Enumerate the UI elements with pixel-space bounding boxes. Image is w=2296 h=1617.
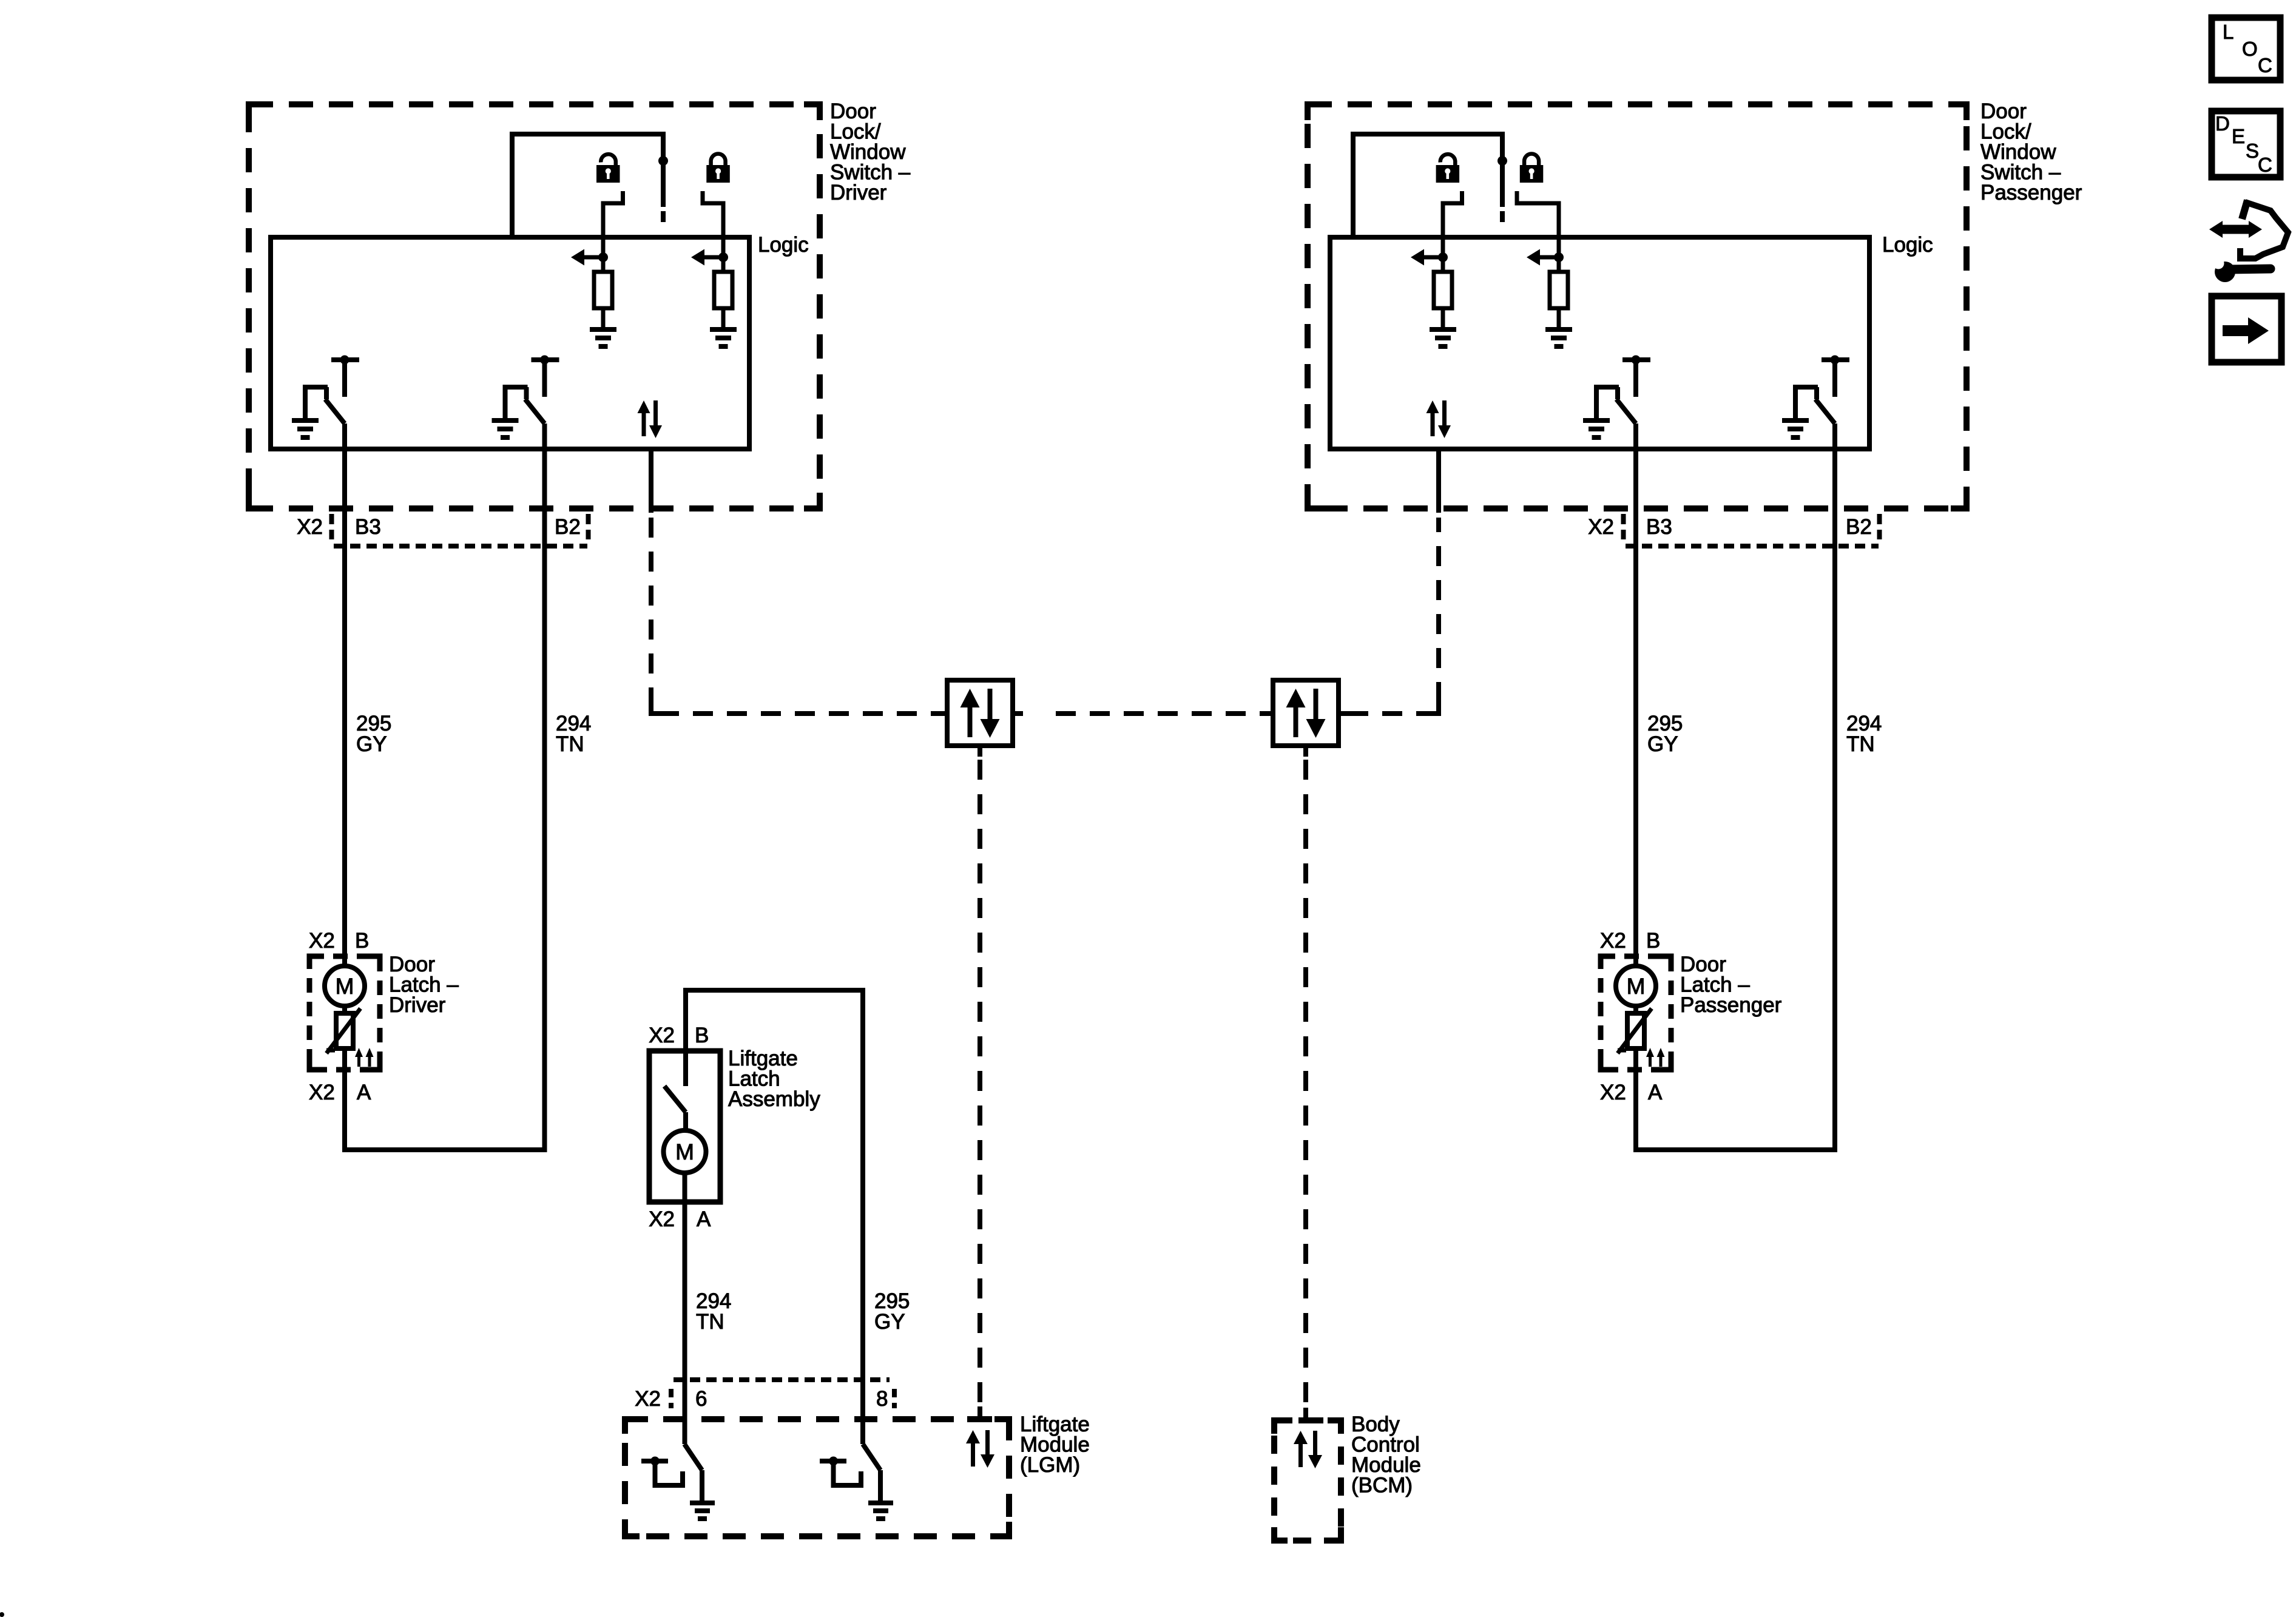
- pin label X2 A (liftgate latch): [649, 1207, 711, 1231]
- motor M of door latch - driver: [325, 966, 365, 1006]
- door lock switch contact B3 (driver): [305, 356, 359, 424]
- unlock padlock icon (driver): [596, 154, 620, 183]
- BCM serial T-bar: [1298, 1417, 1319, 1423]
- svg-text:GY: GY: [1647, 732, 1678, 756]
- label Body Control Module (BCM): [1351, 1413, 1421, 1497]
- svg-text:O: O: [2242, 38, 2258, 60]
- door latch - passenger dashed box: [1601, 956, 1671, 1070]
- label Liftgate Module (LGM): [1020, 1413, 1090, 1477]
- svg-text:(LGM): (LGM): [1020, 1453, 1080, 1477]
- ground of door lock switch contact B2 (passenger): [1782, 420, 1809, 437]
- pin label X2 A of door latch - driver: [309, 1081, 371, 1104]
- wire liftgate latch A down to LGM pin 6 (294 TN): [683, 1173, 687, 1444]
- wire resistor to ground (passenger unlock): [1441, 308, 1445, 328]
- driver door lock/window switch dashed box: [249, 104, 820, 508]
- switch common contact dash (driver): [661, 211, 666, 222]
- resistor (driver unlock): [594, 272, 612, 308]
- liftgate latch assembly box: [649, 1051, 720, 1202]
- serial wire solid segment (driver): [649, 449, 653, 513]
- svg-text:C: C: [2258, 54, 2272, 76]
- serial output arrow (driver unlock): [571, 249, 608, 266]
- svg-text:X2: X2: [1600, 929, 1626, 953]
- wire label 295 GY (passenger): [1647, 712, 1683, 756]
- passenger door lock/window switch dashed box: [1308, 104, 1967, 508]
- door lock switch contact B2 (driver): [505, 356, 559, 424]
- wire resistor to ground (passenger lock): [1557, 308, 1561, 328]
- svg-text:M: M: [675, 1139, 694, 1164]
- svg-text:Logic: Logic: [758, 233, 809, 257]
- svg-text:8: 8: [876, 1387, 888, 1411]
- page corner mark: [0, 1612, 4, 1617]
- wire from lock contact (passenger lock): [1517, 191, 1559, 272]
- wire B2 driver (294 TN): [542, 424, 547, 1150]
- wire label 294 TN (liftgate): [696, 1289, 731, 1334]
- liftgate latch motor M: [664, 1112, 706, 1173]
- serial data symbol (passenger logic): [1427, 400, 1451, 438]
- svg-text:C: C: [2258, 154, 2272, 176]
- wire label 295 GY (driver): [356, 712, 391, 756]
- serial output arrow (passenger lock): [1527, 249, 1564, 266]
- corner dash (passenger serial wire): [1427, 702, 1439, 714]
- wire from unlock contact (driver unlock): [603, 191, 623, 272]
- svg-text:Driver: Driver: [830, 181, 887, 204]
- serial wire solid segment (passenger): [1436, 449, 1441, 513]
- switch common contact dash (passenger): [1500, 211, 1505, 222]
- svg-text:B3: B3: [1646, 515, 1672, 539]
- svg-text:GY: GY: [356, 732, 387, 756]
- pin label X2 B of door latch - driver: [309, 929, 369, 953]
- wire label 294 TN (driver): [556, 712, 591, 756]
- serial output arrow (driver lock): [691, 249, 728, 266]
- connector row X2/B3/B2 (passenger): [1588, 514, 1879, 546]
- dashed serial wire box2 to passenger switch: [1348, 518, 1439, 714]
- svg-text:A: A: [357, 1081, 371, 1104]
- label: Door Lock/Window Switch - Driver: [830, 100, 911, 204]
- resistor (passenger unlock): [1434, 272, 1452, 308]
- junction dot (driver loop): [658, 156, 668, 166]
- junction dot (passenger loop): [1497, 156, 1507, 166]
- PTC thermistor of door latch - driver: [326, 1006, 360, 1053]
- ground of LGM switch pin 8: [868, 1503, 893, 1519]
- double up-arrows of door latch - driver: [355, 1048, 374, 1067]
- svg-text:M: M: [1627, 974, 1646, 999]
- icon: description and operation (arrow hand wrench): [2209, 200, 2288, 282]
- svg-text:S: S: [2246, 140, 2259, 162]
- liftgate wire loop: B terminal up over to 295 GY wire and down to LGM pin 8: [686, 990, 863, 1444]
- svg-text:M: M: [336, 974, 354, 999]
- supply loop wire (passenger): [1353, 134, 1502, 237]
- label door latch - driver: [389, 953, 459, 1017]
- corner dash (driver serial wire): [651, 702, 663, 714]
- logic box (passenger): [1330, 237, 1869, 449]
- svg-text:X2: X2: [649, 1207, 675, 1231]
- dashed serial wire box2 down to BCM: [1303, 760, 1308, 1404]
- serial data symbol (BCM): [1294, 1431, 1322, 1468]
- icon box DESC: [2212, 111, 2280, 177]
- svg-text:X2: X2: [309, 1081, 335, 1104]
- LGM serial T-bar: [967, 1416, 987, 1422]
- svg-text:Driver: Driver: [389, 993, 446, 1017]
- svg-text:GY: GY: [874, 1310, 905, 1334]
- label door latch - passenger: [1680, 953, 1782, 1017]
- wire B2 passenger (294 TN): [1832, 424, 1837, 1150]
- serial data dashed wire (driver to connector): [651, 518, 937, 714]
- ground (driver lock): [710, 329, 737, 346]
- svg-text:X2: X2: [1588, 515, 1614, 539]
- logic box (driver): [271, 237, 749, 449]
- resistor (passenger lock): [1550, 272, 1568, 308]
- ground (passenger unlock): [1430, 329, 1456, 346]
- svg-text:Assembly: Assembly: [728, 1087, 820, 1111]
- svg-text:B: B: [355, 929, 369, 953]
- lock padlock icon (passenger): [1520, 154, 1544, 183]
- ground of LGM switch pin 6: [690, 1503, 715, 1519]
- LGM switch pin 6: [641, 1444, 702, 1501]
- serial data symbol (LGM): [966, 1430, 994, 1468]
- svg-text:X2: X2: [309, 929, 335, 953]
- svg-text:TN: TN: [696, 1310, 724, 1334]
- label: Door Lock/Window Switch - Passenger: [1980, 100, 2082, 204]
- svg-text:E: E: [2232, 125, 2245, 147]
- svg-text:D: D: [2215, 112, 2230, 135]
- ground of door lock switch contact B3 (driver): [292, 420, 319, 437]
- connector row X2/6/8 (LGM): [635, 1380, 894, 1411]
- liftgate module (LGM) dashed box: [625, 1419, 1009, 1536]
- supply loop wire (driver): [512, 134, 663, 237]
- dashed serial wire between connector boxes: [1056, 711, 1263, 716]
- double up-arrows of door latch - passenger: [1646, 1048, 1665, 1067]
- svg-text:Logic: Logic: [1882, 233, 1933, 257]
- liftgate latch switch: [664, 1051, 686, 1112]
- wire latch to loop bottom (driver): [345, 1048, 547, 1150]
- ground of door lock switch contact B3 (passenger): [1583, 420, 1610, 437]
- svg-text:6: 6: [695, 1387, 707, 1411]
- svg-text:A: A: [697, 1207, 711, 1231]
- ground (passenger lock): [1545, 329, 1572, 346]
- LGM switch pin 8: [820, 1444, 880, 1501]
- wire latch to loop bottom (passenger): [1636, 1048, 1837, 1150]
- ground of door lock switch contact B2 (driver): [492, 420, 519, 437]
- wire from unlock contact (passenger unlock): [1443, 191, 1462, 272]
- door latch - driver dashed box: [309, 956, 380, 1070]
- serial data symbol (driver logic): [638, 400, 663, 438]
- resistor (driver lock): [714, 272, 732, 308]
- svg-text:X2: X2: [635, 1387, 661, 1411]
- connector row X2/B3/B2 (driver): [297, 514, 588, 546]
- svg-text:X2: X2: [297, 515, 323, 539]
- body control module (BCM) dashed box: [1274, 1420, 1341, 1541]
- icon box LOC: [2212, 18, 2280, 80]
- wire resistor to ground (driver lock): [721, 308, 726, 328]
- svg-text:A: A: [1648, 1081, 1663, 1104]
- svg-text:(BCM): (BCM): [1351, 1474, 1413, 1497]
- serial output arrow (passenger unlock): [1411, 249, 1448, 266]
- motor M of door latch - passenger: [1616, 966, 1656, 1006]
- svg-text:TN: TN: [1846, 732, 1875, 756]
- svg-text:B: B: [1646, 929, 1660, 953]
- svg-text:X2: X2: [1600, 1081, 1626, 1104]
- icon box forward arrow: [2212, 296, 2281, 362]
- svg-text:B2: B2: [555, 515, 581, 539]
- pin label X2 B (liftgate latch): [649, 1024, 709, 1047]
- label Liftgate Latch Assembly: [728, 1047, 820, 1111]
- wire resistor to ground (driver unlock): [601, 308, 606, 328]
- svg-text:TN: TN: [556, 732, 584, 756]
- svg-text:B: B: [695, 1024, 709, 1047]
- pin label X2 B of door latch - passenger: [1600, 929, 1660, 953]
- ground (driver unlock): [590, 329, 616, 346]
- serial data connector box 1: [937, 680, 1023, 757]
- serial data connector box 2: [1263, 680, 1349, 757]
- dashed serial wire box1 down to LGM: [977, 760, 982, 1403]
- svg-text:L: L: [2223, 21, 2234, 43]
- wire label 295 GY (liftgate): [874, 1289, 910, 1334]
- svg-text:B2: B2: [1846, 515, 1872, 539]
- svg-text:B3: B3: [355, 515, 381, 539]
- wire B3 passenger (295 GY) upper: [1633, 424, 1638, 966]
- svg-text:X2: X2: [649, 1024, 675, 1047]
- unlock padlock icon (passenger): [1436, 154, 1460, 183]
- lock padlock icon (driver): [706, 154, 730, 183]
- svg-text:Passenger: Passenger: [1980, 181, 2082, 204]
- wire label 294 TN (passenger): [1846, 712, 1882, 756]
- wire from lock contact (driver lock): [703, 191, 723, 272]
- door lock switch contact B3 (passenger): [1596, 356, 1650, 424]
- svg-text:Passenger: Passenger: [1680, 993, 1782, 1017]
- wire B3 driver (295 GY) upper: [342, 424, 347, 966]
- PTC thermistor of door latch - passenger: [1618, 1006, 1652, 1053]
- pin label X2 A of door latch - passenger: [1600, 1081, 1663, 1104]
- door lock switch contact B2 (passenger): [1795, 356, 1849, 424]
